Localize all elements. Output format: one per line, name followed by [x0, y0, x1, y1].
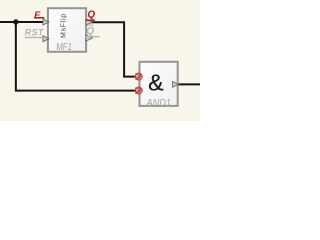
svg-text:AND1: AND1 — [146, 98, 171, 109]
svg-text:Q: Q — [86, 26, 94, 37]
svg-text:&: & — [148, 70, 163, 96]
svg-text:Q: Q — [87, 10, 95, 21]
svg-text:E: E — [34, 10, 41, 20]
svg-text:MF1: MF1 — [56, 41, 72, 52]
svg-text:MsFlip: MsFlip — [61, 13, 68, 38]
svg-text:RST: RST — [25, 27, 45, 37]
